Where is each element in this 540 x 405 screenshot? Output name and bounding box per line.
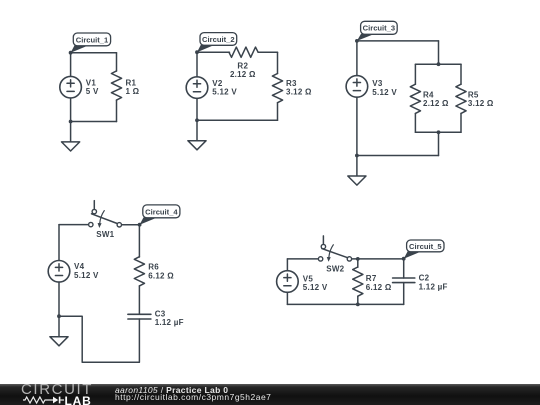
wire	[71, 52, 117, 54]
svg-text:2.12 Ω: 2.12 Ω	[230, 70, 256, 79]
node junction C3 top-left	[355, 39, 359, 43]
label V2 value	[212, 79, 237, 97]
net label Circuit_2	[197, 33, 237, 53]
wire	[70, 53, 72, 77]
label R6 value	[148, 263, 174, 281]
svg-text:1.12 µF: 1.12 µF	[155, 318, 184, 327]
wire	[258, 51, 277, 53]
net label Circuit_4	[140, 205, 180, 225]
svg-text:V5: V5	[303, 274, 314, 283]
svg-text:V4: V4	[74, 262, 85, 271]
svg-text:SW1: SW1	[96, 230, 114, 239]
wire	[59, 316, 139, 362]
svg-text:Circuit_4: Circuit_4	[145, 207, 178, 216]
svg-text:2.12 Ω: 2.12 Ω	[423, 99, 449, 108]
svg-text:6.12 Ω: 6.12 Ω	[366, 283, 392, 292]
wire	[357, 40, 439, 42]
resistor R7	[353, 267, 363, 296]
resistor R5	[456, 84, 466, 113]
svg-text:6.12 Ω: 6.12 Ω	[148, 271, 174, 280]
svg-text:1.12 µF: 1.12 µF	[419, 282, 448, 291]
label R7 value	[366, 274, 392, 292]
wire	[414, 113, 416, 132]
wire	[438, 132, 440, 155]
label R2 value	[230, 61, 256, 79]
voltage source V5	[277, 271, 299, 293]
wire	[59, 224, 88, 226]
node junction R7 bottom	[356, 303, 360, 307]
svg-text:Circuit_1: Circuit_1	[76, 35, 109, 44]
ground	[62, 122, 80, 152]
node junction C1 bottom	[69, 120, 73, 124]
wire	[286, 259, 288, 271]
label R5 value	[468, 90, 494, 108]
wire	[357, 155, 439, 157]
node junction C4 bottom	[57, 314, 61, 318]
ground	[188, 120, 206, 150]
resistor R4	[410, 84, 420, 113]
svg-text:Circuit_3: Circuit_3	[363, 24, 396, 33]
label V4 value	[74, 262, 99, 280]
net label Circuit_5	[404, 240, 444, 259]
wire	[277, 52, 279, 73]
label V1 value	[86, 78, 99, 96]
node junction C2 bottom	[195, 118, 199, 122]
node junction C2 top	[402, 257, 406, 261]
wire	[277, 103, 279, 121]
footer logo LAB	[65, 395, 92, 405]
wire	[356, 41, 358, 76]
label V3 value	[372, 79, 397, 97]
footer url line	[115, 393, 271, 402]
voltage source V1	[60, 76, 82, 98]
node junction parallel bottom	[437, 130, 441, 134]
net label Circuit_1	[71, 33, 111, 53]
voltage source V3	[346, 76, 368, 98]
wire	[197, 51, 230, 53]
node junction C4 top	[138, 223, 142, 227]
resistor R2	[229, 47, 258, 57]
wire	[122, 224, 140, 226]
wire	[70, 98, 72, 122]
wire	[116, 53, 118, 71]
label C2 value	[419, 274, 448, 292]
wire	[287, 258, 317, 260]
wire	[460, 64, 462, 84]
footer credit line	[115, 386, 228, 395]
node junction C2 top	[195, 50, 199, 54]
wire	[357, 259, 359, 267]
wire	[356, 97, 358, 155]
voltage source V4	[48, 261, 70, 283]
wire	[58, 282, 60, 316]
switch SW2	[318, 236, 351, 262]
wire	[357, 296, 359, 304]
svg-text:SW2: SW2	[326, 264, 344, 273]
wire	[286, 292, 288, 304]
wire	[116, 100, 118, 121]
wire	[438, 41, 440, 64]
resistor R6	[134, 257, 144, 286]
label R1 value	[126, 78, 140, 96]
svg-text:1 Ω: 1 Ω	[126, 87, 140, 96]
svg-text:3.12 Ω: 3.12 Ω	[468, 99, 494, 108]
ground	[50, 316, 68, 346]
wire	[196, 98, 198, 120]
voltage source V2	[186, 77, 208, 99]
label R4 value	[423, 90, 449, 108]
svg-text:5.12 V: 5.12 V	[372, 88, 397, 97]
node junction C1 top	[69, 51, 73, 55]
net label Circuit_3	[357, 21, 397, 41]
wire	[460, 113, 462, 132]
svg-text:R7: R7	[366, 274, 377, 283]
wire	[71, 121, 117, 123]
wire	[58, 225, 60, 261]
footer logo zigzag diode	[22, 395, 66, 405]
wire	[287, 303, 403, 305]
svg-text:R6: R6	[148, 263, 159, 272]
switch SW1	[89, 201, 122, 228]
wire	[352, 258, 404, 260]
svg-text:C2: C2	[419, 274, 430, 283]
svg-text:5 V: 5 V	[86, 87, 99, 96]
label R3 value	[286, 79, 312, 97]
wire	[197, 119, 278, 121]
ground	[348, 156, 366, 186]
svg-text:5.12 V: 5.12 V	[212, 88, 237, 97]
wire	[414, 64, 416, 84]
svg-text:Circuit_5: Circuit_5	[409, 242, 442, 251]
label C3 value	[155, 309, 184, 327]
label V5 value	[303, 274, 328, 292]
svg-text:C3: C3	[155, 309, 166, 318]
wire	[415, 131, 461, 133]
capacitor C2	[393, 278, 415, 283]
svg-text:5.12 V: 5.12 V	[303, 283, 328, 292]
wire	[196, 52, 198, 77]
wire	[403, 259, 405, 278]
node junction parallel top	[437, 62, 441, 66]
footer bar	[0, 384, 540, 405]
svg-text:3.12 Ω: 3.12 Ω	[286, 88, 312, 97]
wire	[403, 283, 405, 305]
wire	[138, 286, 140, 314]
wire	[138, 225, 140, 257]
node junction R7 top	[356, 257, 360, 261]
resistor R1	[111, 71, 121, 100]
svg-text:Circuit_2: Circuit_2	[202, 35, 235, 44]
svg-text:5.12 V: 5.12 V	[74, 271, 99, 280]
footer logo CIRCUIT	[21, 382, 93, 397]
resistor R3	[272, 74, 282, 103]
node junction C3 bottom-left	[355, 154, 359, 158]
wire	[415, 63, 461, 65]
capacitor C3	[128, 314, 151, 319]
